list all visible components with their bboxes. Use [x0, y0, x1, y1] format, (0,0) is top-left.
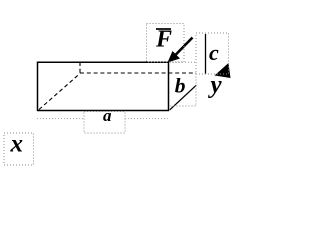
- right end diagonal edge: [170, 85, 197, 110]
- x box dotted border: [4, 133, 34, 165]
- beam patch ragged top-right edge: [170, 61, 196, 63]
- label F vector overbar: [156, 28, 171, 30]
- dimension line c vertical: [205, 34, 207, 74]
- beam front face outline: [37, 62, 169, 112]
- svg-text:y: y: [208, 71, 223, 98]
- F box dotted border: [147, 24, 185, 63]
- wire bottom edge: [37, 110, 169, 112]
- hidden edge dashed horizontal: [80, 72, 196, 74]
- svg-text:x: x: [10, 131, 24, 158]
- hidden edge dashed vertical: [79, 62, 81, 74]
- svg-text:F: F: [155, 27, 172, 53]
- svg-text:c: c: [209, 40, 219, 65]
- force F arrow shaft: [170, 38, 193, 61]
- svg-text:a: a: [103, 106, 112, 125]
- b box dotted border right/bottom: [169, 74, 196, 107]
- a box dotted border: [84, 112, 125, 134]
- wire left edge: [37, 62, 39, 112]
- beam patch ragged bottom edge right part: [125, 118, 170, 120]
- svg-text:b: b: [175, 74, 186, 98]
- beam patch ragged bottom edge left part: [37, 118, 84, 120]
- force F arrowhead: [168, 51, 181, 63]
- wire right edge: [168, 62, 170, 111]
- c box dotted border: [196, 33, 229, 74]
- y axis arrowhead: [215, 63, 231, 78]
- hidden edge dashed diagonal: [39, 74, 80, 110]
- wire top edge: [37, 61, 169, 63]
